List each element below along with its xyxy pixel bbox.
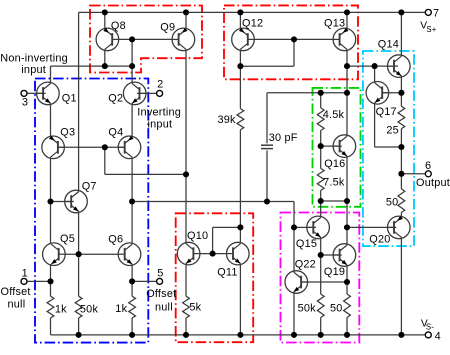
svg-text:3: 3 — [22, 97, 28, 109]
svg-text:4.5k: 4.5k — [323, 109, 345, 121]
svg-text:S-: S- — [426, 322, 434, 331]
svg-text:50: 50 — [330, 302, 343, 314]
svg-text:Q9: Q9 — [160, 22, 175, 34]
svg-text:Q6: Q6 — [108, 233, 123, 245]
svg-text:1k: 1k — [55, 303, 67, 315]
svg-text:Q2: Q2 — [108, 92, 123, 104]
svg-text:Q20: Q20 — [369, 234, 390, 246]
svg-text:50k: 50k — [80, 303, 99, 315]
svg-text:50k: 50k — [298, 302, 317, 314]
svg-text:7: 7 — [433, 8, 439, 20]
svg-text:5k: 5k — [189, 302, 201, 314]
svg-text:2: 2 — [157, 78, 163, 90]
svg-text:Q7: Q7 — [82, 180, 97, 192]
svg-text:5: 5 — [157, 268, 163, 280]
svg-text:Q3: Q3 — [60, 126, 75, 138]
svg-text:Non-inverting: Non-inverting — [0, 52, 68, 64]
svg-text:Q14: Q14 — [378, 38, 399, 50]
svg-text:input: input — [148, 118, 173, 130]
svg-text:null: null — [8, 299, 26, 311]
svg-text:50: 50 — [386, 197, 399, 209]
svg-text:7.5k: 7.5k — [323, 177, 345, 189]
svg-text:null: null — [155, 302, 173, 314]
svg-text:Q15: Q15 — [296, 238, 317, 250]
svg-text:Q16: Q16 — [324, 158, 345, 170]
svg-text:Q19: Q19 — [324, 266, 345, 278]
svg-text:Q5: Q5 — [60, 233, 75, 245]
svg-text:Q11: Q11 — [217, 266, 237, 278]
svg-text:39k: 39k — [218, 114, 237, 126]
svg-text:Q22: Q22 — [295, 259, 316, 271]
svg-text:1: 1 — [22, 268, 28, 280]
svg-text:6: 6 — [425, 160, 431, 172]
svg-text:Q10: Q10 — [187, 230, 208, 242]
svg-text:4: 4 — [435, 330, 441, 342]
svg-text:1k: 1k — [115, 303, 127, 315]
svg-text:Offset: Offset — [1, 286, 31, 298]
svg-text:input: input — [21, 64, 46, 76]
svg-text:Q12: Q12 — [242, 17, 263, 29]
svg-text:Q17: Q17 — [376, 106, 397, 118]
svg-text:Q8: Q8 — [111, 20, 126, 32]
svg-text:25: 25 — [386, 124, 399, 136]
svg-text:Q13: Q13 — [324, 18, 345, 30]
svg-text:Output: Output — [416, 177, 450, 189]
svg-text:Inverting: Inverting — [137, 107, 181, 119]
svg-text:Offset: Offset — [146, 288, 176, 300]
svg-text:Q4: Q4 — [108, 127, 123, 139]
svg-text:30 pF: 30 pF — [269, 132, 298, 144]
svg-text:S+: S+ — [426, 25, 436, 34]
svg-text:Q1: Q1 — [62, 92, 77, 104]
